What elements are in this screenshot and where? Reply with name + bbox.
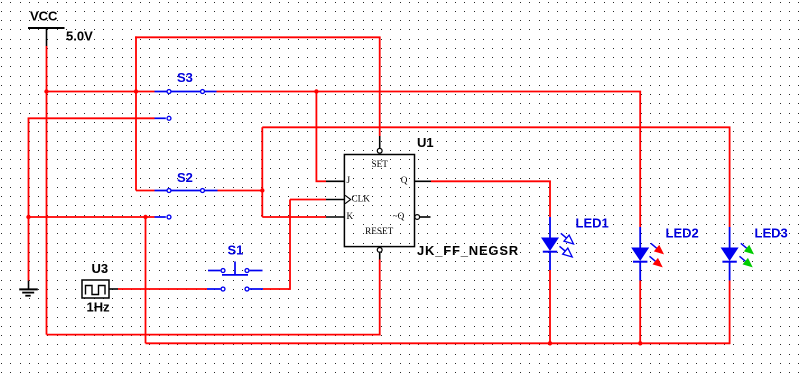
svg-text:VCC: VCC [30, 8, 58, 23]
label U3 [92, 261, 109, 276]
pin label Q [401, 175, 408, 185]
svg-text:JK_FF_NEGSR: JK_FF_NEGSR [417, 243, 519, 258]
junction x=28 y=217 [26, 215, 30, 219]
wire CLK horizontal y=199 [290, 199, 326, 201]
LED3 (green, on) [721, 227, 757, 281]
wire LED2 vertical x=639.5 upper [639, 92, 641, 228]
wire K net vertical x=262 [261, 127, 263, 217]
svg-text:~Q: ~Q [393, 211, 405, 221]
pin RESET stub and bubble [377, 248, 382, 260]
junction VCC/S3 x=47 y=91 [44, 89, 48, 93]
wire VCC vertical x=47 from VCC down to bottom rail [46, 46, 48, 335]
pin J stub [326, 180, 344, 182]
junction x=262 y=190 [260, 188, 264, 192]
pin label J [347, 175, 351, 185]
value label 1Hz [87, 300, 111, 315]
svg-text:U3: U3 [92, 261, 109, 276]
svg-text:LED2: LED2 [666, 226, 699, 241]
label S2 [177, 170, 193, 185]
svg-text:1Hz: 1Hz [87, 300, 111, 315]
junction x=639.5 y=342.5 [638, 341, 642, 345]
junction x=135 y=91 [134, 89, 138, 93]
wire J vertical x=317 [315, 92, 317, 182]
label U1 [417, 135, 434, 150]
label S3 [177, 70, 193, 85]
wire LED3 vertical x=729.5 upper [729, 127, 731, 227]
pin label K [347, 211, 354, 221]
wire Q output y=181 [431, 180, 551, 182]
svg-text:S2: S2 [177, 170, 193, 185]
LED2 (red, on) [631, 227, 667, 281]
wire S1 to CLK corner [263, 288, 290, 290]
wire LED ground rail y=342.5 [146, 342, 730, 344]
label JK_FF_NEGSR [417, 243, 519, 258]
wire vertical x=135 (VCC branch to S2) [135, 36, 137, 190]
power symbol VCC [28, 28, 65, 46]
pin label RESET [365, 226, 393, 236]
pin label SET [372, 159, 389, 169]
label LED1 [576, 216, 609, 231]
svg-text:S1: S1 [228, 243, 244, 258]
wire U3 to S1 y=289 [118, 288, 207, 290]
value label 5.0V [66, 28, 93, 43]
clock source U3 [82, 280, 118, 298]
switch S3 [155, 90, 217, 121]
wire S3 row y=91 left segment [47, 91, 155, 93]
wire S2 main left segment y=190 [136, 190, 155, 192]
label VCC [30, 8, 58, 23]
svg-text:5.0V: 5.0V [66, 28, 93, 43]
svg-text:S3: S3 [177, 70, 193, 85]
label LED2 [666, 226, 699, 241]
svg-text:U1: U1 [417, 135, 434, 150]
LED1 (off) [541, 217, 576, 270]
wire K pin horizontal y=217 [262, 216, 326, 218]
svg-text:Q: Q [401, 175, 408, 185]
wire S3 lower throw y=117 [28, 117, 155, 119]
wire S2 output y=190 to K net [218, 190, 263, 192]
wire CLK vertical x=290 [289, 200, 291, 290]
wire J horizontal into pin [316, 180, 327, 182]
wire SET vertical x=379.5 [379, 37, 381, 136]
wire ground-net vertical x=145 [145, 217, 147, 343]
pin SET stub and bubble [377, 136, 382, 153]
wire S3 row y=91 right segment to LED2 drop [217, 91, 642, 93]
switch S2 [155, 189, 218, 219]
wire bottom VCC rail y=334 [47, 334, 381, 336]
svg-text:LED3: LED3 [755, 226, 788, 241]
wire LED1 lower x=550 [549, 270, 551, 343]
wire K net horizontal y=126 to LED3 [262, 126, 730, 128]
svg-text:LED1: LED1 [576, 216, 609, 231]
pin CLK stub and edge triangle [326, 195, 351, 203]
pin label CLK [352, 193, 371, 203]
pin K stub [326, 216, 344, 218]
pin Q stub [415, 180, 432, 182]
junction x=317 y=91 (J branch) [314, 89, 318, 93]
wire LED2 lower x=639.5 [639, 281, 641, 344]
wire top horizontal y=36 (VCC to SET) [135, 36, 381, 38]
svg-text:RESET: RESET [365, 226, 393, 236]
wire RESET vertical x=380 [379, 260, 381, 336]
wire LED1 vertical upper x=550 [549, 181, 551, 217]
switch S1 (pushbutton) [207, 262, 263, 291]
wire S2 lower throw y=217 [28, 216, 155, 218]
flip-flop U1 [344, 155, 414, 247]
pin ~Q bubble and stub [415, 215, 431, 220]
junction x=145 y=217 [143, 215, 147, 219]
ground [19, 281, 38, 296]
svg-text:SET: SET [372, 159, 389, 169]
pin label ~Q [393, 211, 405, 221]
junction x=550 y=342.5 [548, 341, 552, 345]
svg-text:K: K [347, 211, 354, 221]
svg-text:CLK: CLK [352, 193, 371, 203]
svg-text:J: J [347, 175, 351, 185]
wire LED3 lower x=729.5 [729, 281, 731, 345]
label LED3 [755, 226, 788, 241]
label S1 [228, 243, 244, 258]
wire ground vertical x=28 [28, 118, 30, 280]
